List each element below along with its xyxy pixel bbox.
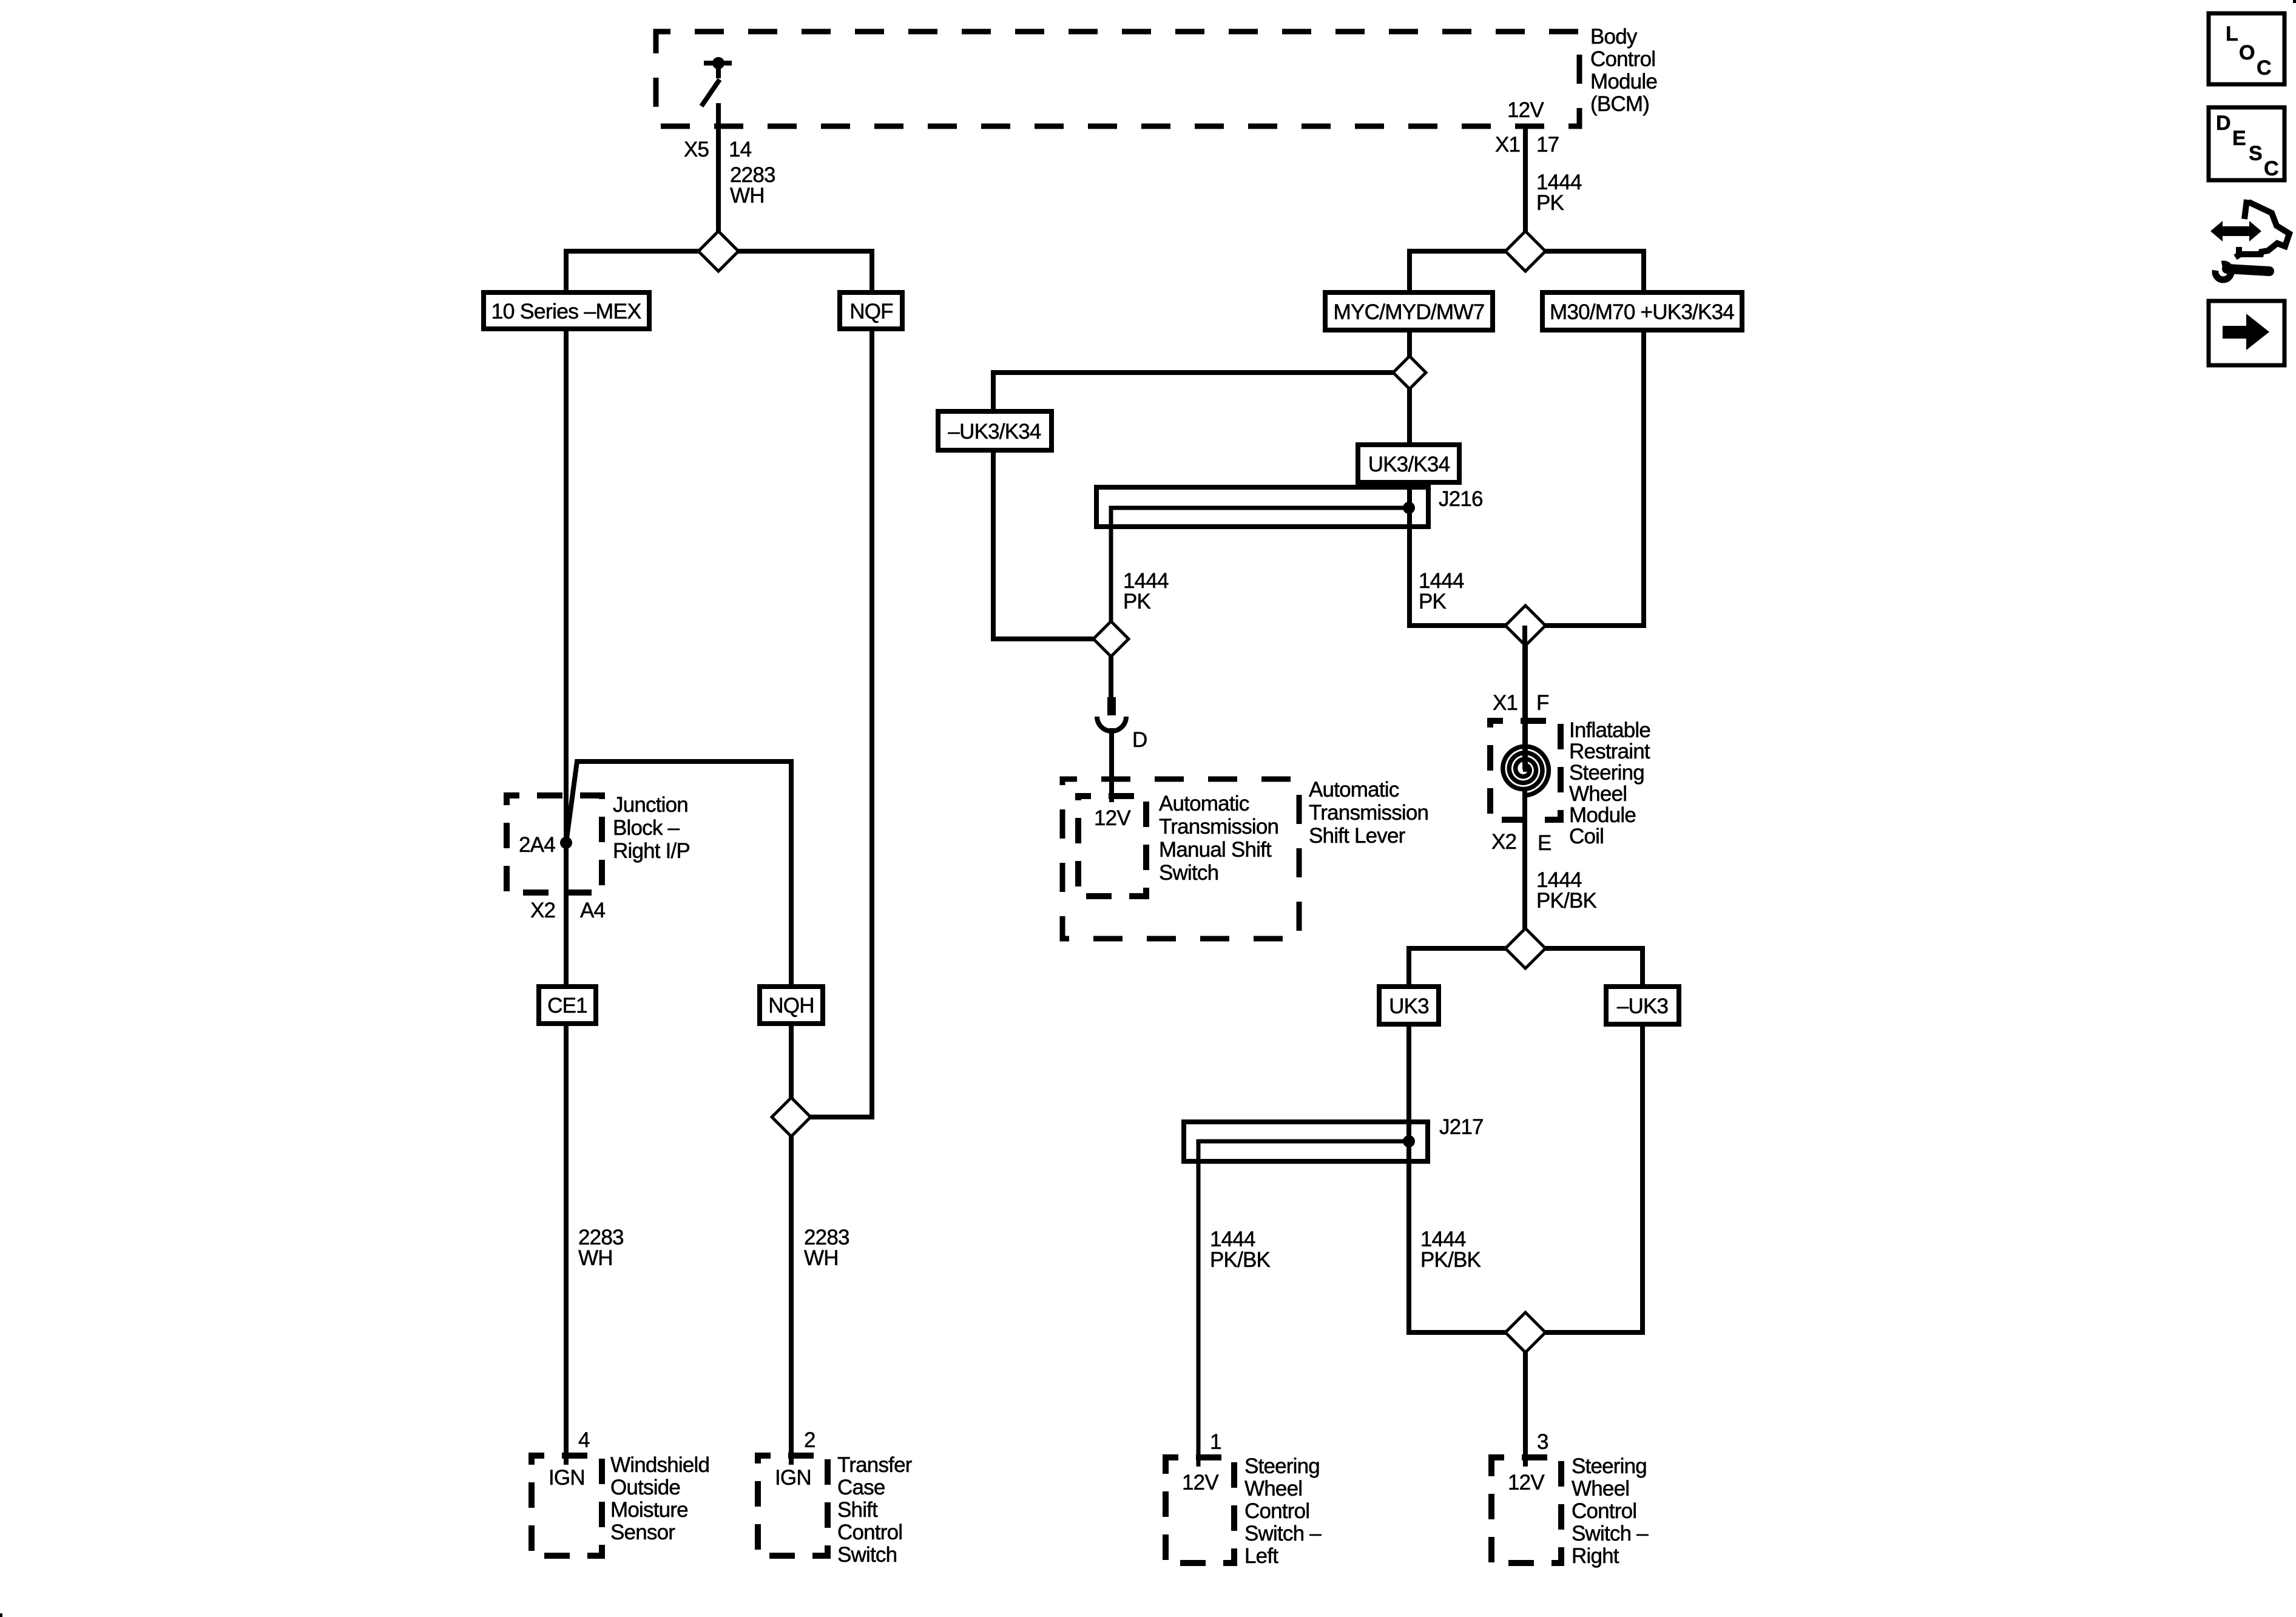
svg-text:Control: Control [1590, 47, 1655, 71]
svg-text:Windshield: Windshield [610, 1453, 709, 1477]
svg-text:X2: X2 [1491, 830, 1516, 854]
svg-text:Right: Right [1572, 1544, 1619, 1568]
svg-text:10 Series –MEX: 10 Series –MEX [491, 300, 641, 323]
svg-text:PK/BK: PK/BK [1420, 1248, 1481, 1272]
svg-text:UK3: UK3 [1389, 994, 1429, 1018]
svg-text:CE1: CE1 [547, 994, 587, 1018]
svg-text:J216: J216 [1439, 487, 1483, 511]
svg-text:Case: Case [837, 1476, 885, 1499]
svg-text:Shift: Shift [837, 1498, 878, 1522]
svg-text:Control: Control [837, 1521, 902, 1544]
svg-text:Switch –: Switch – [1572, 1522, 1649, 1545]
svg-text:Switch: Switch [1159, 861, 1218, 885]
svg-text:Control: Control [1244, 1499, 1309, 1523]
svg-text:Outside: Outside [610, 1476, 680, 1499]
svg-text:F: F [1536, 691, 1549, 715]
svg-text:PK: PK [1419, 590, 1447, 613]
svg-text:Transmission: Transmission [1309, 801, 1428, 825]
svg-text:2: 2 [804, 1428, 815, 1452]
svg-text:M30/M70 +UK3/K34: M30/M70 +UK3/K34 [1550, 300, 1734, 324]
svg-text:Steering: Steering [1244, 1454, 1320, 1478]
svg-text:14: 14 [729, 138, 752, 161]
svg-text:X5: X5 [684, 138, 709, 161]
svg-text:WH: WH [804, 1246, 839, 1270]
svg-text:A4: A4 [580, 899, 606, 922]
svg-text:Wheel: Wheel [1569, 782, 1627, 806]
svg-text:L: L [2226, 22, 2238, 46]
svg-text:Automatic: Automatic [1309, 778, 1399, 802]
svg-text:12V: 12V [1508, 1471, 1545, 1494]
svg-text:Restraint: Restraint [1569, 740, 1650, 763]
svg-text:S: S [2249, 142, 2262, 165]
svg-text:3: 3 [1537, 1430, 1548, 1454]
svg-text:O: O [2239, 41, 2255, 64]
svg-text:PK: PK [1123, 590, 1151, 613]
svg-text:Module: Module [1590, 70, 1657, 93]
svg-text:Steering: Steering [1572, 1454, 1647, 1478]
svg-text:Steering: Steering [1569, 761, 1644, 785]
svg-text:Manual Shift: Manual Shift [1159, 838, 1272, 862]
svg-text:Shift Lever: Shift Lever [1309, 824, 1406, 848]
svg-text:–UK3/K34: –UK3/K34 [948, 420, 1041, 444]
svg-text:NQH: NQH [768, 994, 814, 1018]
svg-text:Switch: Switch [837, 1543, 897, 1567]
svg-text:Wheel: Wheel [1244, 1477, 1302, 1501]
svg-text:X2: X2 [530, 899, 555, 922]
svg-text:Body: Body [1590, 25, 1638, 49]
svg-text:J217: J217 [1439, 1115, 1484, 1139]
svg-text:IGN: IGN [775, 1466, 811, 1490]
svg-text:Block –: Block – [613, 816, 680, 840]
svg-text:D: D [1132, 728, 1147, 752]
svg-text:C: C [2264, 157, 2278, 180]
svg-text:Control: Control [1572, 1499, 1636, 1523]
svg-text:12V: 12V [1507, 98, 1544, 122]
svg-text:(BCM): (BCM) [1590, 92, 1649, 116]
svg-text:D: D [2216, 112, 2230, 135]
svg-text:Coil: Coil [1569, 825, 1604, 848]
svg-text:PK/BK: PK/BK [1536, 889, 1597, 913]
svg-text:MYC/MYD/MW7: MYC/MYD/MW7 [1334, 300, 1485, 324]
svg-text:WH: WH [730, 184, 765, 208]
svg-text:Module: Module [1569, 803, 1636, 827]
svg-text:Inflatable: Inflatable [1569, 718, 1650, 742]
svg-text:PK: PK [1536, 191, 1564, 215]
svg-text:PK/BK: PK/BK [1210, 1248, 1271, 1272]
svg-text:Switch –: Switch – [1244, 1522, 1322, 1545]
svg-text:NQF: NQF [849, 300, 893, 323]
svg-text:Automatic: Automatic [1159, 792, 1249, 815]
svg-text:C: C [2257, 56, 2271, 79]
svg-text:–UK3: –UK3 [1617, 994, 1668, 1018]
svg-text:1: 1 [1210, 1430, 1221, 1454]
svg-text:IGN: IGN [549, 1466, 585, 1490]
svg-text:2A4: 2A4 [519, 833, 555, 857]
svg-text:Right I/P: Right I/P [613, 839, 690, 863]
svg-text:Wheel: Wheel [1572, 1477, 1629, 1501]
svg-text:UK3/K34: UK3/K34 [1368, 453, 1450, 476]
svg-text:Transfer: Transfer [837, 1453, 913, 1477]
svg-text:Junction: Junction [613, 793, 688, 817]
svg-text:E: E [1538, 831, 1551, 855]
svg-text:12V: 12V [1094, 806, 1131, 830]
svg-text:Transmission: Transmission [1159, 815, 1278, 839]
svg-text:17: 17 [1536, 133, 1559, 157]
svg-text:X1: X1 [1495, 133, 1520, 157]
svg-text:Moisture: Moisture [610, 1498, 688, 1522]
svg-text:Sensor: Sensor [610, 1521, 675, 1544]
svg-text:X1: X1 [1493, 691, 1518, 715]
svg-text:4: 4 [578, 1428, 590, 1452]
svg-text:WH: WH [578, 1246, 613, 1270]
svg-text:12V: 12V [1182, 1471, 1219, 1494]
svg-text:Left: Left [1244, 1544, 1278, 1568]
svg-text:E: E [2232, 127, 2246, 150]
